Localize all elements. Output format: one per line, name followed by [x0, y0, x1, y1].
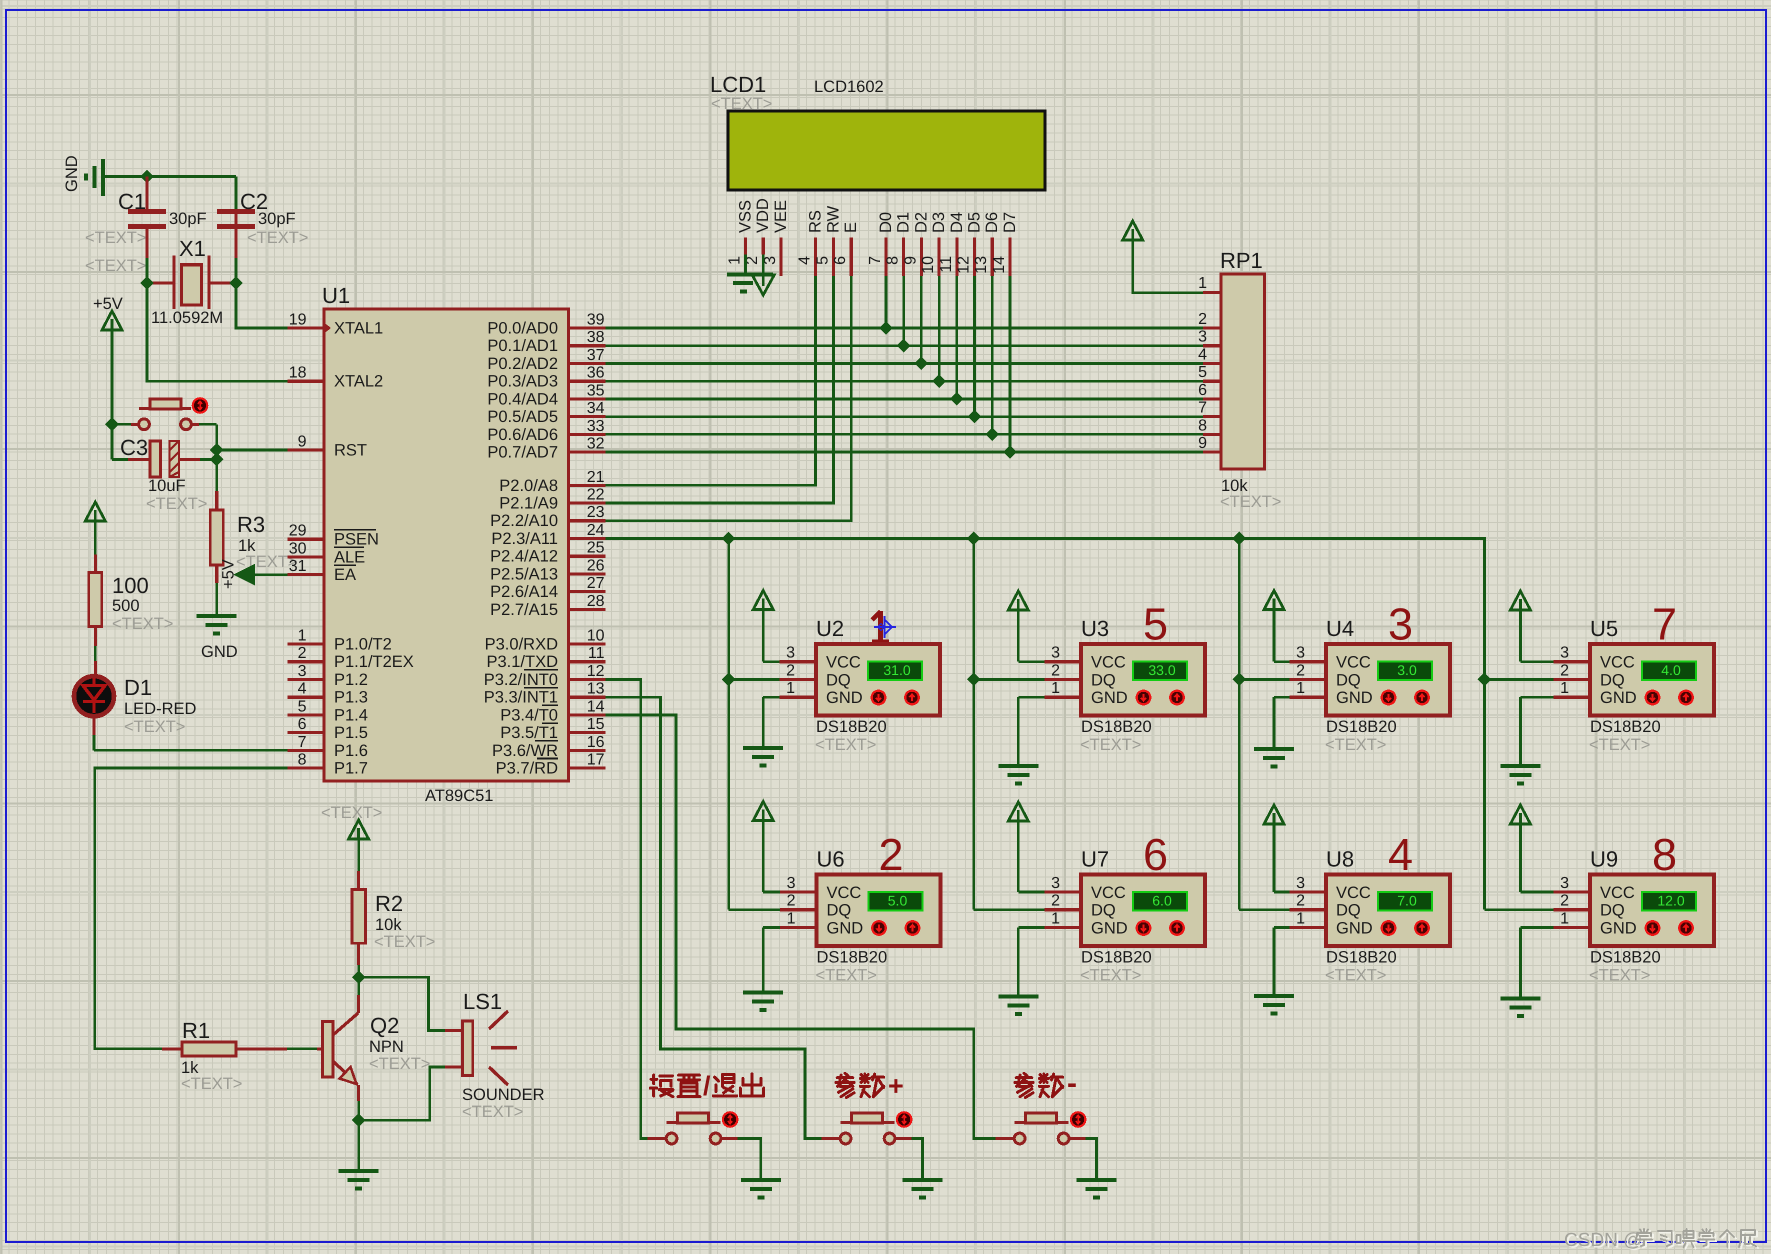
svg-text:P3.6/WR: P3.6/WR: [492, 742, 558, 760]
wire P2.0 to LCD RS: [606, 276, 816, 485]
wire DQ U6 to bus: [729, 908, 780, 911]
wire R1 to Q2 base: [287, 1047, 317, 1050]
svg-text:DQ: DQ: [1600, 902, 1625, 920]
svg-text:2: 2: [298, 645, 307, 662]
svg-text:4: 4: [797, 256, 814, 265]
svg-text:3: 3: [1296, 875, 1305, 892]
wire P3.4 to button MINUS: [606, 715, 996, 1139]
svg-text:GND: GND: [1091, 919, 1128, 937]
U1 pin 9 RST: [288, 448, 325, 451]
svg-text:13: 13: [973, 256, 990, 274]
U1 pin 39 P0.0/AD0: [569, 326, 606, 329]
ground (U3): [998, 766, 1038, 784]
svg-text:9: 9: [298, 434, 307, 451]
U1 pin 22 P2.1/A9: [569, 501, 606, 504]
svg-text:DQ: DQ: [1336, 902, 1361, 920]
wire P0.0 to LCD D0 and RP1 pin 2: [606, 327, 1204, 330]
svg-text:34: 34: [587, 400, 605, 417]
svg-text:1: 1: [727, 256, 744, 265]
svg-text:P2.5/A13: P2.5/A13: [490, 565, 558, 583]
wire P0.4 to LCD D4 and RP1 pin 6: [606, 398, 1204, 401]
svg-text:6.0: 6.0: [1152, 893, 1172, 909]
svg-text:U1: U1: [322, 283, 350, 308]
svg-text:GND: GND: [201, 643, 238, 661]
ground (button PLUS): [902, 1180, 942, 1198]
wire button PLUS to ground: [895, 1137, 912, 1140]
svg-text:10: 10: [920, 256, 937, 274]
wire VCC U3: [1018, 660, 1044, 663]
svg-text:<TEXT>: <TEXT>: [1080, 736, 1141, 754]
LCD ground symbol (VSS): [744, 255, 747, 274]
push button: [666, 1133, 677, 1144]
svg-text:14: 14: [991, 256, 1008, 274]
svg-text:+: +: [888, 1071, 904, 1101]
svg-text:P0.7/AD7: P0.7/AD7: [487, 444, 558, 462]
svg-text:NPN: NPN: [369, 1038, 404, 1056]
svg-text:VCC: VCC: [1336, 884, 1371, 902]
junction reset button branch: [105, 418, 119, 432]
svg-text:VCC: VCC: [1600, 884, 1635, 902]
svg-text:25: 25: [587, 540, 605, 557]
svg-text:D4: D4: [948, 212, 966, 233]
button label 参数-: [1015, 1073, 1033, 1097]
power +5V arrow (U2): [753, 591, 773, 610]
svg-text:2: 2: [879, 829, 904, 880]
capacitor C2: [234, 210, 237, 258]
svg-text:P2.0/A8: P2.0/A8: [499, 477, 558, 495]
svg-text:7.0: 7.0: [1397, 893, 1417, 909]
svg-text:VCC: VCC: [826, 654, 861, 672]
wire VCC U7: [1018, 891, 1044, 894]
wire GND U2 to ground: [763, 696, 779, 699]
svg-text:<TEXT>: <TEXT>: [85, 257, 146, 275]
svg-text:8: 8: [885, 256, 902, 265]
RP1 pin 2: [1203, 326, 1221, 329]
wire X1 left to XTAL2 pin 18: [147, 283, 288, 381]
svg-text:37: 37: [587, 347, 605, 364]
junction D0: [879, 321, 893, 335]
ground (U6): [743, 993, 783, 1011]
wire GND U8 to ground: [1274, 926, 1290, 929]
svg-text:P1.3: P1.3: [334, 689, 368, 707]
svg-text:P0.0/AD0: P0.0/AD0: [487, 320, 558, 338]
wire RP1 pin1 to +5V: [1133, 240, 1203, 293]
wire GND U4 to ground: [1274, 696, 1290, 699]
wire DQ U8 to bus: [1239, 908, 1289, 911]
svg-text:2: 2: [1198, 311, 1207, 328]
junction X1 left: [140, 276, 154, 290]
svg-text:2: 2: [1051, 662, 1060, 679]
wire R2 to Q2 collector: [357, 965, 360, 977]
svg-text:E: E: [842, 222, 860, 233]
U1 pin 3 P1.2: [288, 678, 325, 681]
svg-text:XTAL2: XTAL2: [334, 373, 383, 391]
U1 pin 38 P0.1/AD1: [569, 344, 606, 347]
RP1 pin 3: [1203, 344, 1221, 347]
svg-text:P0.1/AD1: P0.1/AD1: [487, 337, 558, 355]
svg-text:26: 26: [587, 557, 605, 574]
power +5V arrow (U8): [1264, 805, 1284, 824]
U1 pin 33 P0.6/AD6: [569, 433, 606, 436]
junction D1: [897, 339, 911, 353]
U1 pin 23 P2.2/A10: [569, 519, 606, 522]
svg-text:30pF: 30pF: [169, 210, 207, 228]
wire R3 to ground: [215, 583, 218, 616]
svg-text:21: 21: [587, 469, 605, 486]
svg-text:P3.1/TXD: P3.1/TXD: [486, 653, 558, 671]
svg-text:P1.0/T2: P1.0/T2: [334, 636, 392, 654]
wire button SET to ground: [721, 1137, 738, 1140]
wire VCC U8: [1274, 891, 1290, 894]
svg-text:5: 5: [1143, 599, 1168, 650]
svg-text:P3.2/INT0: P3.2/INT0: [484, 671, 558, 689]
svg-text:36: 36: [587, 365, 605, 382]
wire bus drop: [727, 539, 730, 910]
svg-text:DQ: DQ: [1091, 671, 1116, 689]
wire VCC U6: [763, 891, 780, 894]
svg-text:<TEXT>: <TEXT>: [1220, 493, 1281, 511]
svg-text:Q2: Q2: [370, 1013, 399, 1038]
U1 pin 27 P2.6/A14: [569, 590, 606, 593]
svg-text:RW: RW: [824, 205, 842, 233]
wire GND U6 to ground: [763, 926, 780, 929]
svg-text:P2.7/A15: P2.7/A15: [490, 601, 558, 619]
junction X1 right: [229, 276, 243, 290]
svg-text:8: 8: [298, 752, 307, 769]
svg-text:DQ: DQ: [1336, 671, 1361, 689]
wire P0.6 to LCD D6 and RP1 pin 8: [606, 433, 1204, 436]
RP1 pin 1: [1203, 291, 1221, 294]
svg-text:1: 1: [298, 628, 307, 645]
U1 pin 37 P0.2/AD2: [569, 362, 606, 365]
junction bus: [1232, 532, 1246, 546]
svg-text:D1: D1: [124, 675, 152, 700]
svg-text:P2.3/A11: P2.3/A11: [491, 530, 558, 548]
junction C3 out: [210, 453, 224, 467]
svg-text:P2.4/A12: P2.4/A12: [490, 548, 558, 566]
svg-text:X1: X1: [179, 236, 206, 261]
svg-text:<TEXT>: <TEXT>: [369, 1055, 430, 1073]
power +5V arrow (U3): [1008, 591, 1028, 610]
RP1 pin 7: [1203, 415, 1221, 418]
svg-text:14: 14: [587, 698, 605, 715]
svg-text:31.0: 31.0: [883, 662, 910, 678]
U1 pin 36 P0.3/AD3: [569, 380, 606, 383]
U1 pin 5 P1.4: [288, 713, 325, 716]
svg-text:DQ: DQ: [827, 902, 852, 920]
wire DQ U3 to bus: [974, 678, 1045, 681]
svg-text:U7: U7: [1081, 847, 1109, 872]
svg-text:2: 2: [1560, 662, 1569, 679]
wire DQ U2 to bus: [729, 678, 780, 681]
svg-text:4.0: 4.0: [1661, 662, 1681, 678]
svg-text:D3: D3: [930, 212, 948, 233]
svg-text:2: 2: [787, 893, 796, 910]
svg-text:GND: GND: [1336, 689, 1373, 707]
junction DQ U3: [967, 673, 981, 687]
svg-text:33: 33: [587, 418, 605, 435]
svg-text:VDD: VDD: [754, 198, 772, 233]
svg-text:P1.1/T2EX: P1.1/T2EX: [334, 653, 414, 671]
junction bus: [722, 532, 736, 546]
svg-text:DQ: DQ: [1091, 902, 1116, 920]
svg-text:/: /: [703, 1071, 711, 1101]
U1 pin 10 P3.0/RXD: [569, 642, 606, 645]
wire DQ U5 to bus: [1484, 678, 1553, 681]
svg-text:C1: C1: [118, 189, 146, 214]
svg-text:13: 13: [587, 681, 605, 698]
svg-text:12: 12: [956, 256, 973, 274]
svg-text:PSEN: PSEN: [334, 531, 379, 549]
svg-text:17: 17: [587, 752, 605, 769]
wire VCC U5: [1520, 660, 1553, 663]
RP1 pin 4: [1203, 362, 1221, 365]
svg-text:LCD1: LCD1: [710, 72, 766, 97]
junction DQ U2: [722, 673, 736, 687]
svg-text:29: 29: [289, 523, 307, 540]
wire DQ U7 to bus: [974, 908, 1045, 911]
svg-text:ALE: ALE: [334, 548, 365, 566]
svg-text:3: 3: [786, 645, 795, 662]
LED D1 LED-RED: [94, 626, 97, 646]
ground (U2): [743, 748, 783, 766]
svg-text:6: 6: [1198, 382, 1207, 399]
svg-text:23: 23: [587, 504, 605, 521]
power +5V arrow (RP1): [1123, 221, 1143, 240]
wire P0.2 to LCD D2 and RP1 pin 4: [606, 362, 1204, 365]
U1 pin 34 P0.5/AD5: [569, 415, 606, 418]
svg-text:VCC: VCC: [827, 884, 862, 902]
svg-text:5: 5: [298, 698, 307, 715]
svg-text:<TEXT>: <TEXT>: [815, 736, 876, 754]
svg-text:DQ: DQ: [1600, 671, 1625, 689]
U1 pin 4 P1.3: [288, 696, 325, 699]
svg-text:39: 39: [587, 312, 605, 329]
svg-text:<TEXT>: <TEXT>: [1589, 736, 1650, 754]
wire P3.2 to button SET: [606, 679, 648, 1138]
svg-text:P3.4/T0: P3.4/T0: [500, 706, 558, 724]
svg-text:6: 6: [832, 256, 849, 265]
junction D4: [950, 392, 964, 406]
svg-text:12.0: 12.0: [1657, 893, 1684, 909]
svg-text:D1: D1: [895, 212, 913, 233]
svg-text:<TEXT>: <TEXT>: [1325, 967, 1386, 985]
wire X1 right to XTAL1 pin 19: [236, 283, 288, 328]
junction D7: [1003, 445, 1017, 459]
wire button MINUS to ground: [1069, 1137, 1086, 1140]
U1 pin 12 P3.2/INT0: [569, 678, 606, 681]
svg-text:1: 1: [1296, 910, 1305, 927]
svg-text:LCD1602: LCD1602: [814, 78, 884, 96]
svg-text:XTAL1: XTAL1: [334, 320, 383, 338]
svg-text:DS18B20: DS18B20: [817, 949, 888, 967]
svg-text:VCC: VCC: [1600, 654, 1635, 672]
svg-text:1: 1: [1296, 680, 1305, 697]
power +5V arrow (U6): [753, 802, 773, 821]
wire P0.3 to LCD D3 and RP1 pin 5: [606, 380, 1204, 383]
svg-text:DS18B20: DS18B20: [1081, 949, 1152, 967]
svg-text:P2.1/A9: P2.1/A9: [499, 495, 558, 513]
svg-text:2: 2: [1051, 893, 1060, 910]
junction at C1 top: [140, 170, 154, 184]
wire P0.1 to LCD D1 and RP1 pin 3: [606, 344, 1204, 347]
U1 pin 13 P3.3/INT1: [569, 696, 606, 699]
svg-text:DS18B20: DS18B20: [1326, 718, 1397, 736]
RP1 pin 6: [1203, 397, 1221, 400]
U1 pin 21 P2.0/A8: [569, 484, 606, 487]
svg-text:3: 3: [1560, 645, 1569, 662]
svg-text:8: 8: [1652, 829, 1677, 880]
svg-text:U5: U5: [1590, 616, 1618, 641]
wire P2.1 to LCD RW: [606, 276, 834, 503]
svg-text:30pF: 30pF: [258, 210, 296, 228]
U1 pin 16 P3.6/WR: [569, 749, 606, 752]
svg-text:3: 3: [1560, 875, 1569, 892]
junction D5: [968, 410, 982, 424]
svg-text:<TEXT>: <TEXT>: [146, 495, 207, 513]
svg-text:R2: R2: [375, 891, 403, 916]
svg-text:GND: GND: [1336, 919, 1373, 937]
svg-text:2: 2: [786, 662, 795, 679]
svg-text:GND: GND: [827, 919, 864, 937]
junction D2: [915, 357, 929, 371]
svg-text:4: 4: [1198, 346, 1207, 363]
ground power rail symbol (top-left): [86, 159, 103, 196]
U1 pin 26 P2.5/A13: [569, 572, 606, 575]
wire VCC U9: [1520, 891, 1553, 894]
U1 pin 15 P3.5/T1: [569, 731, 606, 734]
resistor 100/500: [85, 502, 105, 521]
svg-text:<TEXT>: <TEXT>: [247, 229, 308, 247]
svg-text:P0.3/AD3: P0.3/AD3: [487, 373, 558, 391]
svg-text:27: 27: [587, 575, 605, 592]
junction bus: [967, 532, 981, 546]
resistor R2 10k: [357, 871, 360, 890]
svg-text:P1.7: P1.7: [334, 760, 368, 778]
resistor R3 1k: [215, 491, 218, 510]
svg-text:SOUNDER: SOUNDER: [462, 1086, 545, 1104]
wire VCC U2: [763, 660, 779, 663]
wire C1 bottom to X1 left / XTAL2: [146, 258, 149, 283]
svg-text:3: 3: [1051, 645, 1060, 662]
svg-text:1: 1: [786, 680, 795, 697]
ground (button MINUS): [1076, 1180, 1116, 1198]
junction collector node: [352, 971, 366, 985]
svg-text:D0: D0: [877, 212, 895, 233]
svg-text:U9: U9: [1590, 847, 1618, 872]
push button: [840, 1133, 851, 1144]
svg-text:1: 1: [787, 910, 796, 927]
svg-text:10: 10: [587, 628, 605, 645]
U1 pin 25 P2.4/A12: [569, 555, 606, 558]
ground (button SET): [741, 1180, 781, 1198]
svg-text:D2: D2: [912, 212, 930, 233]
wire P2.2 to LCD E: [606, 276, 852, 521]
svg-text:VSS: VSS: [737, 200, 755, 233]
power +5V arrow (U9): [1510, 805, 1530, 824]
svg-text:CSDN @: CSDN @: [1564, 1230, 1642, 1251]
svg-text:7: 7: [1652, 599, 1677, 650]
svg-text:32: 32: [587, 436, 605, 453]
svg-text:22: 22: [587, 487, 605, 504]
svg-text:VCC: VCC: [1091, 884, 1126, 902]
svg-text:3: 3: [1051, 875, 1060, 892]
U1 pin 7 P1.6: [288, 749, 325, 752]
svg-text:8: 8: [1198, 417, 1207, 434]
svg-text:6: 6: [1143, 829, 1168, 880]
svg-text:1: 1: [1560, 910, 1569, 927]
svg-text:P3.0/RXD: P3.0/RXD: [485, 636, 558, 654]
U1 pin 35 P0.4/AD4: [569, 397, 606, 400]
svg-text:<TEXT>: <TEXT>: [1325, 736, 1386, 754]
wire P2.3 one-wire bus: [606, 539, 1485, 910]
ground (U8): [1254, 996, 1294, 1014]
svg-text:RST: RST: [334, 442, 367, 460]
svg-text:U2: U2: [816, 616, 844, 641]
svg-text:<TEXT>: <TEXT>: [374, 933, 435, 951]
junction D6: [985, 428, 999, 442]
LCD VDD power arrow: [762, 255, 765, 275]
junction DQ U5: [1478, 673, 1492, 687]
svg-text:P1.4: P1.4: [334, 706, 368, 724]
wire P0.5 to LCD D5 and RP1 pin 7: [606, 415, 1204, 418]
svg-text:500: 500: [112, 597, 140, 615]
power +5V arrow (U7): [1008, 802, 1028, 821]
ground (below R3): [197, 616, 237, 634]
svg-text:12: 12: [587, 663, 605, 680]
ground (U7): [998, 997, 1038, 1015]
wire +5V down to reset button / C3: [111, 330, 114, 460]
power +5V arrow (U4): [1264, 591, 1284, 610]
svg-text:10k: 10k: [375, 916, 402, 934]
power +5V arrow (U5): [1510, 591, 1530, 610]
U1 pin 28 P2.7/A15: [569, 608, 606, 611]
svg-text:AT89C51: AT89C51: [425, 787, 493, 805]
svg-text:<TEXT>: <TEXT>: [112, 615, 173, 633]
svg-text:3: 3: [298, 663, 307, 680]
svg-text:DS18B20: DS18B20: [1590, 949, 1661, 967]
svg-text:P3.3/INT1: P3.3/INT1: [484, 689, 558, 707]
svg-text:P2.6/A14: P2.6/A14: [490, 583, 558, 601]
svg-text:1: 1: [1198, 275, 1207, 292]
capacitor C1: [145, 177, 148, 211]
svg-text:VEE: VEE: [772, 200, 790, 233]
U1 pin 11 P3.1/TXD: [569, 660, 606, 663]
U1 pin 29 PSEN: [288, 538, 325, 541]
U1 pin 14 P3.4/T0: [569, 713, 606, 716]
svg-text:U6: U6: [817, 847, 845, 872]
U1 pin 31 EA: [288, 573, 325, 576]
svg-text:1: 1: [1051, 910, 1060, 927]
svg-text:100: 100: [112, 573, 149, 598]
svg-text:P1.6: P1.6: [334, 742, 368, 760]
svg-text:9: 9: [1198, 435, 1207, 452]
wire RST node down to R3: [215, 460, 218, 492]
U1 XTAL1 pin marker: [324, 323, 331, 334]
svg-text:5: 5: [814, 256, 831, 265]
origin marker (U2): [874, 616, 896, 638]
wire P3.3 to button PLUS: [606, 697, 822, 1138]
svg-text:9: 9: [902, 256, 919, 265]
svg-text:D7: D7: [1001, 212, 1019, 233]
svg-text:DS18B20: DS18B20: [816, 718, 887, 736]
svg-text:+5V: +5V: [93, 295, 123, 313]
resistor R1 1k: [162, 1047, 182, 1050]
svg-text:P0.4/AD4: P0.4/AD4: [487, 390, 558, 408]
push button: [1014, 1133, 1025, 1144]
svg-text:7: 7: [298, 734, 307, 751]
svg-text:U4: U4: [1326, 616, 1354, 641]
